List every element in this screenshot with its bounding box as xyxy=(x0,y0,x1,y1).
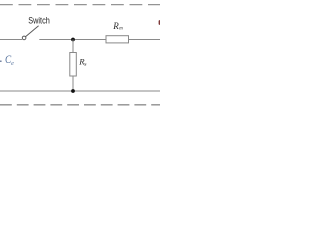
wire (Rs down to bottom rail) xyxy=(72,76,74,91)
svg-text:Switch: Switch xyxy=(28,15,50,25)
svg-text:m: m xyxy=(119,25,123,31)
svg-text:e: e xyxy=(11,61,14,67)
node A junction dot xyxy=(71,38,75,42)
wire (Rm to right edge) xyxy=(129,39,161,41)
wire (switch to node A and on to Rm) xyxy=(39,39,106,41)
resistor Rs body xyxy=(70,53,77,77)
label Ce (cropped caption, equals sign fragment) xyxy=(0,60,2,62)
cropped red glyph at right edge xyxy=(159,20,161,25)
wire (left lead into switch) xyxy=(0,39,22,41)
bottom dashed boundary line xyxy=(0,104,160,106)
switch S1 (open, pole circle) xyxy=(22,36,26,40)
wire (bottom rail) xyxy=(0,90,160,92)
svg-text:s: s xyxy=(84,61,86,67)
switch S1 lever xyxy=(26,26,39,37)
node B junction dot (bottom) xyxy=(71,89,75,93)
svg-text:R: R xyxy=(112,21,119,31)
resistor Rm body xyxy=(106,36,129,43)
wire (node A down to Rs) xyxy=(72,40,74,53)
top dashed boundary line xyxy=(0,4,160,6)
